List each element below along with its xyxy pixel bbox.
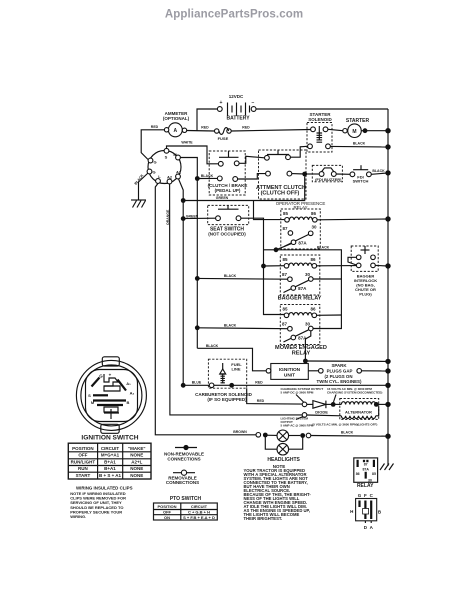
svg-text:86: 86 [311, 211, 317, 216]
ground at bottom of right bus [380, 464, 394, 471]
svg-text:ON: ON [164, 515, 170, 520]
svg-text:87: 87 [364, 463, 368, 467]
svg-text:S: S [165, 155, 168, 160]
wire spark to bus [362, 370, 389, 372]
bagger interlock switch [351, 246, 378, 297]
starter motor M [328, 118, 388, 138]
svg-text:L: L [158, 174, 161, 179]
wire op relay coil 86 to bus [317, 218, 388, 221]
node alternator output [374, 402, 379, 407]
wire headlights to bus [311, 435, 388, 438]
svg-text:BATTERY: BATTERY [226, 116, 250, 122]
svg-text:PLUG): PLUG) [359, 292, 372, 297]
node feeder junction bagger coil [261, 264, 266, 269]
node headlight right junction [300, 433, 305, 438]
svg-text:F: F [364, 493, 367, 498]
wire red to bus [232, 384, 388, 386]
svg-text:BLACK: BLACK [206, 344, 219, 348]
wire battery plus to fuse row [197, 109, 217, 131]
PTO switch table [154, 496, 218, 520]
node headlight left junction [263, 433, 268, 438]
svg-text:TWIN CYL. ENGINES): TWIN CYL. ENGINES) [317, 379, 362, 384]
svg-text:NONE: NONE [130, 473, 143, 478]
wire ammeter right to fuse [187, 130, 215, 133]
svg-text:RED: RED [201, 126, 209, 130]
svg-text:RED: RED [257, 399, 265, 403]
fuel line / carburetor solenoid (if so equipped) [195, 359, 252, 402]
wire bagger 30 stub to vertical [313, 278, 341, 280]
right bus vertical wire [387, 109, 389, 466]
wire seat switch output to relay coils feeder [241, 218, 285, 314]
svg-text:B + S + A1: B + S + A1 [99, 473, 122, 478]
svg-text:BLACK: BLACK [341, 430, 354, 434]
label 16 volts AC min [327, 387, 382, 402]
svg-text:BLACK: BLACK [353, 142, 366, 146]
svg-text:86: 86 [310, 307, 316, 312]
svg-text:A2+L: A2+L [131, 459, 142, 464]
wire A2 terminal down to alternator lighting row [170, 184, 303, 415]
svg-text:CIRCUIT: CIRCUIT [191, 504, 208, 509]
svg-text:A₂: A₂ [130, 391, 135, 396]
svg-text:86: 86 [310, 257, 316, 262]
starter solenoid [307, 112, 332, 152]
svg-text:B: B [127, 400, 130, 405]
attachment clutch switch (clutch off) [256, 150, 306, 199]
wiring insulated clips note [70, 486, 132, 519]
wire battery minus to right bus top [256, 108, 388, 110]
svg-text:THEIR BRIGHTEST.: THEIR BRIGHTEST. [244, 516, 283, 521]
node carb solenoid junction [229, 383, 234, 388]
svg-text:BLACK: BLACK [201, 174, 214, 178]
svg-text:SWITCH: SWITCH [353, 179, 369, 184]
node ignition unit top junction [303, 359, 308, 364]
ignition unit [266, 364, 308, 380]
svg-text:"MAKE": "MAKE" [128, 446, 146, 451]
svg-text:87A: 87A [298, 240, 307, 245]
svg-text:PTO SWITCH: PTO SWITCH [170, 496, 202, 502]
svg-text:C + G.B + H: C + G.B + H [188, 510, 210, 515]
headlight 1 [265, 430, 300, 442]
wire clutch/brake bottom-right to attachment clutch bottom-left [238, 174, 266, 179]
svg-text:30: 30 [305, 272, 311, 277]
wire attachment clutch bottom-right to FDI node [292, 173, 305, 175]
svg-text:WHITE: WHITE [181, 141, 193, 145]
svg-text:SOLENOID: SOLENOID [308, 117, 332, 122]
node on M bus [195, 276, 200, 281]
node FDI junction [302, 172, 307, 177]
wire to solenoid node [214, 384, 230, 386]
chassis ground symbol [131, 200, 146, 208]
svg-text:AppliancePartsPros.com: AppliancePartsPros.com [165, 9, 303, 21]
svg-text:B+A1: B+A1 [104, 466, 116, 471]
svg-text:30: 30 [305, 322, 311, 327]
svg-text:RUN/LIGHT: RUN/LIGHT [71, 459, 96, 464]
svg-text:85: 85 [282, 307, 288, 312]
svg-text:A2: A2 [167, 175, 173, 180]
svg-text:87A: 87A [298, 286, 307, 291]
svg-text:A1: A1 [176, 170, 182, 175]
svg-text:(PEDAL UP): (PEDAL UP) [215, 188, 241, 193]
wire FDI switch to bus [371, 173, 388, 174]
svg-text:SPARK: SPARK [331, 363, 347, 368]
white wire S to clutch/brake switch [167, 146, 219, 164]
svg-text:G: G [99, 374, 103, 379]
svg-text:30: 30 [368, 478, 372, 482]
wire lighting output into alternator [307, 414, 342, 417]
svg-text:PLUGS GAP: PLUGS GAP [327, 368, 353, 373]
wire mower coil 86 to right vertical [317, 314, 342, 316]
wire M terminal to black bus [180, 158, 197, 179]
wire node to feeder vertical [264, 249, 277, 251]
svg-text:86: 86 [356, 472, 360, 476]
svg-text:5 AMP DC @ 3600 RPM: 5 AMP DC @ 3600 RPM [281, 390, 314, 394]
svg-text:C: C [370, 493, 374, 498]
wire L terminal down to headlights row [155, 183, 256, 434]
svg-text:OFF: OFF [163, 510, 172, 515]
wire ignition top to bus [305, 360, 388, 362]
wire interlock right to bus [375, 264, 388, 267]
node green2 junction on A1 wire [181, 216, 186, 221]
wire FDI node to buzzer [305, 173, 320, 175]
wire interlock top-left stub [348, 257, 356, 265]
svg-text:CHARGING SYSTEM DISCONNECTED): CHARGING SYSTEM DISCONNECTED) [327, 390, 382, 394]
svg-text:CONNECTIONS: CONNECTIONS [167, 456, 200, 461]
wire ammeter left down to ignition switch [141, 130, 164, 160]
svg-text:(5 VOLTS AC MIN. @ 3600 RPM)(L: (5 VOLTS AC MIN. @ 3600 RPM)(LIGHTS OFF) [312, 422, 377, 426]
svg-text:IGNITION: IGNITION [279, 367, 301, 373]
svg-text:S + F.B + E.A + D: S + F.B + E.A + D [183, 515, 215, 520]
svg-text:CONNECTIONS: CONNECTIONS [166, 480, 199, 485]
svg-text:RED: RED [151, 125, 159, 129]
svg-text:WIRING.: WIRING. [70, 514, 86, 519]
relay legend box [354, 458, 378, 489]
node diode output [331, 402, 336, 407]
wire alternator bottom coil right edge [376, 407, 379, 416]
svg-text:FUSE: FUSE [218, 136, 229, 141]
wire black from M bus to bagger relay 87 [197, 277, 287, 280]
wire alternator to bus [376, 403, 388, 405]
FDI buzzer [312, 165, 342, 181]
svg-text:87: 87 [282, 272, 288, 277]
svg-text:(IF SO EQUIPPED): (IF SO EQUIPPED) [207, 397, 247, 402]
svg-text:RED: RED [255, 381, 263, 385]
svg-text:S: S [88, 393, 91, 398]
svg-text:BLACK: BLACK [224, 323, 237, 327]
removable connection [209, 383, 214, 388]
svg-text:(CLUTCH OFF): (CLUTCH OFF) [261, 190, 300, 196]
svg-text:RELAY: RELAY [357, 483, 374, 489]
mower engaged relay [275, 305, 327, 357]
ignition switch table [68, 443, 151, 479]
svg-text:BROWN: BROWN [233, 430, 247, 434]
node black row junction [274, 247, 279, 252]
wire red2 to diode row [247, 388, 303, 404]
svg-text:GREEN: GREEN [186, 214, 199, 218]
diode D1 [302, 401, 331, 415]
svg-text:M: M [352, 129, 356, 135]
node M black junction [195, 176, 200, 181]
wire bagger coil 86 to bagger interlock and bus [317, 265, 357, 267]
removable connection [256, 433, 261, 438]
note text block [244, 464, 312, 521]
clutch/brake switch (pedal up) [208, 151, 248, 195]
svg-text:87A: 87A [362, 468, 369, 472]
key slot pattern [92, 378, 100, 387]
FDI switch [350, 165, 371, 183]
svg-text:BLACK: BLACK [372, 169, 385, 173]
wire solenoid lower-left to attachment clutch top-right [290, 146, 307, 157]
svg-text:(FDI BUZZER): (FDI BUZZER) [315, 177, 342, 182]
wire op relay 87A to black row node [276, 244, 292, 250]
svg-text:RUN: RUN [78, 466, 88, 471]
battery B1 12VDC [217, 94, 256, 122]
bagger relay [278, 255, 322, 302]
wire A1 terminal down (interlock feed) [179, 179, 184, 385]
seat switch (not occupied) [208, 205, 249, 236]
svg-text:BLUE: BLUE [192, 381, 202, 385]
wire ignition unit to spark plugs [308, 370, 318, 372]
svg-text:ORANGE: ORANGE [166, 209, 170, 225]
svg-text:5 AMP AC @ 3600 RPM: 5 AMP AC @ 3600 RPM [281, 423, 314, 427]
ignition switch key face drawing [76, 357, 146, 434]
svg-text:85: 85 [282, 257, 288, 262]
fuse F1 [215, 128, 232, 141]
svg-text:BAGGER RELAY: BAGGER RELAY [278, 296, 322, 302]
wire black from M bus to ignition unit [197, 348, 266, 371]
svg-text:BLACK: BLACK [134, 173, 145, 185]
svg-text:D: D [364, 525, 368, 530]
wire feeder to bagger relay coil 85 [264, 265, 286, 267]
lighting output connection [302, 413, 307, 418]
connector pinout drawing [350, 493, 382, 530]
svg-text:12VDC: 12VDC [229, 94, 244, 99]
svg-text:IGNITION SWITCH: IGNITION SWITCH [81, 435, 138, 442]
svg-text:DIODE: DIODE [315, 410, 328, 415]
svg-text:HEADLIGHTS: HEADLIGHTS [267, 457, 300, 463]
wire branch to operator presence coil 85 [254, 201, 285, 220]
svg-text:(NOT OCCUPIED): (NOT OCCUPIED) [208, 231, 246, 236]
svg-text:BLACK: BLACK [224, 274, 237, 278]
svg-text:BLACK: BLACK [317, 245, 330, 249]
wire green1 from A1 to FDI node riser [183, 176, 305, 200]
wire junction to clutch/brake lower-left [197, 177, 217, 179]
svg-text:RED: RED [242, 126, 250, 130]
svg-text:G: G [152, 170, 155, 175]
svg-text:POSITION: POSITION [157, 504, 176, 509]
black bus vertical wire (to relays and ignition unit) [196, 179, 198, 349]
svg-text:B+A1: B+A1 [104, 459, 116, 464]
svg-text:UNIT: UNIT [284, 372, 295, 378]
svg-text:(OPTIONAL): (OPTIONAL) [163, 116, 190, 121]
label charging system output [281, 387, 324, 402]
alternator [333, 399, 378, 420]
headlight 2 (parallel) [265, 435, 302, 455]
wire blue to carb solenoid [183, 384, 209, 386]
wire ignition switch G to chassis ground [139, 173, 149, 200]
wire black from M bus to mower relay 87 [197, 327, 287, 330]
legend removable connections [166, 470, 199, 485]
svg-text:START: START [76, 473, 91, 478]
svg-text:CIRCUIT: CIRCUIT [101, 446, 119, 451]
wire mower 30 down to ignition unit node [305, 331, 310, 361]
svg-text:H: H [350, 509, 353, 514]
svg-text:87: 87 [282, 226, 288, 231]
ignition switch (rotary) [147, 148, 182, 184]
svg-text:87: 87 [282, 322, 288, 327]
svg-text:85: 85 [372, 472, 376, 476]
svg-text:GREEN: GREEN [216, 196, 229, 200]
svg-text:A: A [370, 525, 374, 530]
wire black row to mower relay 30 via right vertical [276, 250, 341, 329]
wire clutch/brake top-right to attachment clutch top-left [239, 156, 264, 163]
svg-text:POSITION: POSITION [72, 446, 94, 451]
spark plugs [317, 363, 362, 384]
ammeter A (optional) [163, 111, 190, 137]
svg-text:B: B [378, 509, 382, 514]
svg-text:A₁: A₁ [126, 381, 131, 386]
operator presence relay [276, 201, 326, 249]
label lighting system output [281, 417, 314, 428]
svg-text:85: 85 [283, 211, 289, 216]
svg-text:G: G [153, 160, 156, 165]
bus junction dots [385, 128, 390, 133]
svg-text:LINE: LINE [231, 367, 240, 372]
svg-text:+: + [220, 100, 223, 106]
svg-text:OFF: OFF [78, 453, 87, 458]
wire buzzer to FDI switch [336, 173, 350, 175]
node on M bus [195, 325, 200, 330]
wire green2 to seat switch [183, 217, 216, 219]
svg-text:RELAY: RELAY [292, 351, 311, 357]
svg-text:M+G+A1: M+G+A1 [101, 453, 120, 458]
svg-text:NONE: NONE [130, 453, 143, 458]
svg-text:G: G [358, 493, 362, 498]
svg-text:ALTERNATOR: ALTERNATOR [345, 410, 372, 415]
svg-text:NONE: NONE [130, 466, 143, 471]
svg-text:+: + [109, 373, 112, 378]
removable connection [306, 433, 311, 438]
svg-text:−: − [252, 100, 255, 106]
svg-text:30: 30 [311, 225, 317, 230]
svg-text:STARTER: STARTER [346, 118, 370, 124]
node A1 blue junction [181, 383, 186, 388]
legend non-removable connections [164, 445, 204, 462]
node green1 junction on A1 wire [181, 198, 186, 203]
svg-text:WIRING INSULATED CLIPS: WIRING INSULATED CLIPS [76, 486, 133, 491]
wire solenoid black to bus [330, 145, 388, 148]
svg-text:A: A [173, 128, 177, 134]
wire fuse to starter solenoid [231, 130, 311, 132]
